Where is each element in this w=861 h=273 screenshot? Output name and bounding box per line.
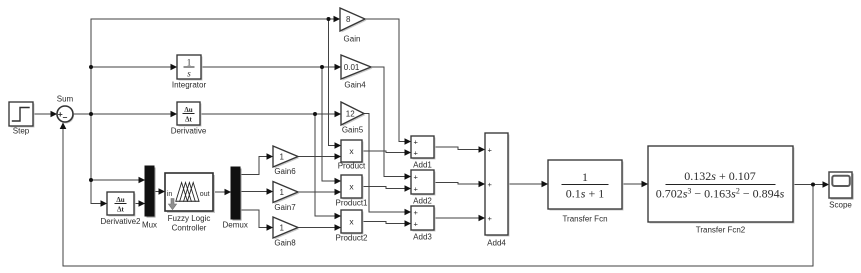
wire Add2 to Add4 input 2 <box>434 183 485 185</box>
wire branch to Mux input 1 <box>91 179 145 181</box>
svg-text:12: 12 <box>346 110 355 119</box>
svg-text:+: + <box>414 138 419 147</box>
svg-text:Sum: Sum <box>57 94 74 103</box>
svg-text:+: + <box>414 185 419 194</box>
junction feedback tap <box>811 183 815 187</box>
svg-text:1: 1 <box>187 58 192 68</box>
sum block Add4 <box>485 133 510 248</box>
wire Sum to Derivative <box>73 113 177 115</box>
block Derivative2 <box>100 192 141 226</box>
gain block Gain6 value 1 <box>273 146 300 176</box>
gain block Gain8 value 1 <box>273 217 300 248</box>
gain block Gain5 value 12 <box>341 102 366 134</box>
svg-text:+: + <box>488 146 493 155</box>
wire Derivative2 to Mux input 2 <box>134 203 145 205</box>
svg-text:Mux: Mux <box>142 221 157 230</box>
svg-text:Derivative: Derivative <box>171 127 207 136</box>
svg-text:8: 8 <box>346 15 351 24</box>
svg-text:1: 1 <box>582 170 588 184</box>
wire Gain8 to Product2 input 2 <box>298 227 341 229</box>
block Product2 <box>335 210 368 242</box>
svg-text:Δu: Δu <box>184 106 192 114</box>
sum block Sum <box>57 94 74 123</box>
svg-text:Product: Product <box>338 161 366 170</box>
svg-text:Product1: Product1 <box>335 198 368 207</box>
svg-text:Scope: Scope <box>829 200 852 209</box>
block Transfer Fcn2 <box>648 146 795 234</box>
block Product <box>338 140 366 170</box>
svg-text:Integrator: Integrator <box>172 80 207 89</box>
svg-text:Gain7: Gain7 <box>274 203 296 212</box>
svg-text:s: s <box>187 69 191 79</box>
svg-text:0.702s3 − 0.163s2 − 0.894s: 0.702s3 − 0.163s2 − 0.894s <box>656 187 785 201</box>
wire Add4 to Transfer Fcn <box>508 183 548 185</box>
svg-text:Add4: Add4 <box>487 239 506 248</box>
wire Demux out3 to Gain8 <box>240 210 273 228</box>
svg-text:Add1: Add1 <box>413 160 432 169</box>
junction P line tap <box>327 17 331 21</box>
wire Sum to Integrator <box>91 66 177 68</box>
gain block Gain value 8 <box>340 8 367 43</box>
svg-text:+: + <box>488 180 493 189</box>
svg-text:Transfer Fcn: Transfer Fcn <box>562 214 607 223</box>
svg-text:Demux: Demux <box>223 221 248 230</box>
wire Derivative to Gain5 <box>200 113 341 115</box>
wire Demux out2 to Gain7 <box>240 191 273 193</box>
wire Mux to Fuzzy Logic Controller <box>154 191 165 193</box>
svg-text:–: – <box>63 112 68 122</box>
junction integrator tap <box>89 65 93 69</box>
svg-text:out: out <box>200 191 210 198</box>
svg-text:Δt: Δt <box>117 206 124 214</box>
block Transfer Fcn <box>548 160 624 223</box>
svg-text:Gain8: Gain8 <box>274 239 296 248</box>
wire Transfer Fcn to Transfer Fcn2 <box>622 183 648 185</box>
svg-text:Step: Step <box>13 127 30 136</box>
svg-text:1: 1 <box>280 223 285 232</box>
svg-text:Transfer Fcn2: Transfer Fcn2 <box>696 225 746 234</box>
svg-text:+: + <box>414 220 419 229</box>
sum block Add1 <box>411 136 436 169</box>
svg-text:1: 1 <box>280 152 285 161</box>
gain block Gain4 value 0.01 <box>341 55 373 89</box>
wire Step to Sum <box>33 113 57 115</box>
svg-text:0.132s + 0.107: 0.132s + 0.107 <box>684 169 755 183</box>
block Step <box>9 102 35 136</box>
junction mux tap <box>89 178 93 182</box>
svg-text:Gain5: Gain5 <box>342 125 364 134</box>
wire Integrator to Gain4 <box>201 66 341 68</box>
block Demux <box>223 167 248 230</box>
wire Add3 to Add4 input 3 <box>434 217 485 219</box>
svg-text:Add2: Add2 <box>413 197 432 206</box>
block Fuzzy Logic Controller <box>165 173 215 232</box>
wire Gain5 to Add3 input 1 <box>364 114 411 213</box>
wire I branch down to Product1 input 1 <box>322 67 341 181</box>
wire Add1 to Add4 input 1 <box>434 147 485 150</box>
wire Gain4 to Add2 input 1 <box>371 67 411 177</box>
gain block Gain7 value 1 <box>273 182 300 212</box>
wire Product1 to Add2 input 2 <box>362 187 411 189</box>
svg-text:+: + <box>414 173 419 182</box>
junction I line tap <box>320 65 324 69</box>
wire branch vertical from Sum output <box>90 19 92 204</box>
svg-text:Δt: Δt <box>185 116 192 124</box>
svg-text:Product2: Product2 <box>335 233 368 242</box>
wire Gain to Add1 input 1 <box>365 19 411 142</box>
wire Gain6 to Product input 2 <box>298 156 341 158</box>
wire Demux out1 to Gain6 <box>240 157 273 175</box>
wire Product2 to Add3 input 2 <box>362 222 411 224</box>
wire feedback to Sum <box>63 123 813 267</box>
svg-text:Δu: Δu <box>116 196 124 204</box>
block Integrator <box>172 55 207 89</box>
block Scope <box>829 172 854 209</box>
sum block Add2 <box>411 170 436 206</box>
svg-text:Add3: Add3 <box>413 232 432 241</box>
svg-text:+: + <box>414 208 419 217</box>
svg-text:Controller: Controller <box>172 223 207 232</box>
svg-text:in: in <box>167 191 173 198</box>
svg-text:1: 1 <box>280 188 285 197</box>
sum block Add3 <box>411 206 436 241</box>
junction D line tap <box>313 112 317 116</box>
wire D branch down to Product2 input 1 <box>315 114 341 216</box>
block Derivative <box>171 102 207 136</box>
svg-text:Derivative2: Derivative2 <box>100 217 141 226</box>
svg-text:Gain: Gain <box>344 34 361 43</box>
wire Gain7 to Product1 input 2 <box>298 191 341 193</box>
wire Transfer Fcn2 to Scope <box>793 184 829 186</box>
wire top P line to Gain <box>91 18 340 20</box>
svg-text:Fuzzy Logic: Fuzzy Logic <box>168 214 211 223</box>
wire branch to Derivative2 <box>91 203 107 205</box>
svg-text:+: + <box>488 214 493 223</box>
svg-text:0.01: 0.01 <box>344 63 360 72</box>
svg-text:Gain4: Gain4 <box>344 80 366 89</box>
wire Fuzzy Logic Controller to Demux <box>213 191 231 193</box>
block Mux <box>142 166 157 230</box>
wire Product to Add1 input 2 <box>362 151 411 153</box>
svg-text:0.1s + 1: 0.1s + 1 <box>566 187 604 201</box>
junction Sum output branch <box>89 112 93 116</box>
block Product1 <box>335 175 368 207</box>
svg-text:Gain6: Gain6 <box>274 167 296 176</box>
wire P branch down to Product input 1 <box>329 19 342 146</box>
svg-text:+: + <box>414 149 419 158</box>
